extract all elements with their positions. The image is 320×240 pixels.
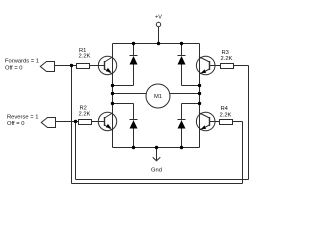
input flag Forwards xyxy=(5,59,55,72)
transistor Q4 xyxy=(196,112,215,131)
diode D3 bottom-left xyxy=(113,104,138,148)
wire Q4 base to R4 xyxy=(210,121,220,123)
diode D2 top-right xyxy=(178,44,200,86)
wire Q3 base to R3 xyxy=(210,65,221,67)
junction D3 left rail xyxy=(111,102,114,105)
svg-text:2.2K: 2.2K xyxy=(220,112,232,118)
junction D4 ground rail xyxy=(180,146,183,149)
svg-text:2.2K: 2.2K xyxy=(79,111,91,117)
resistor R2 xyxy=(79,105,92,124)
transistor Q3 xyxy=(196,56,215,75)
svg-text:+V: +V xyxy=(155,15,162,21)
wire ground rail xyxy=(113,147,200,149)
wire R3 to reverse net xyxy=(234,65,249,67)
junction D4 right rail xyxy=(198,102,201,105)
wire R2 to Q2 base xyxy=(92,121,105,123)
junction D1 top rail xyxy=(132,42,135,45)
svg-text:R4: R4 xyxy=(221,106,229,112)
wire motor right xyxy=(170,93,200,95)
resistor R3 xyxy=(221,50,234,69)
junction gnd stub xyxy=(155,146,158,149)
svg-text:2.2K: 2.2K xyxy=(79,54,91,60)
junction reverse net at R2 xyxy=(74,120,77,123)
svg-text:2.2K: 2.2K xyxy=(221,56,233,62)
diode D1 top-left xyxy=(113,44,138,86)
input flag Reverse xyxy=(7,114,56,127)
resistor R4 xyxy=(220,106,233,124)
transistor Q1 xyxy=(98,56,116,74)
wire R4 to forwards net xyxy=(233,121,243,123)
junction forwards net at R1 xyxy=(70,64,73,67)
wire R1 to Q1 base xyxy=(90,65,105,67)
svg-text:Reverse = 1: Reverse = 1 xyxy=(7,114,38,120)
junction motor right rail xyxy=(198,92,201,95)
wire forwards net bottom xyxy=(72,183,243,185)
wire reverse net vertical left xyxy=(75,122,77,180)
junction motor left rail xyxy=(111,92,114,95)
svg-text:R3: R3 xyxy=(222,50,229,56)
node +V xyxy=(155,15,162,44)
ground xyxy=(151,148,162,174)
transistor Q2 xyxy=(98,112,116,130)
junction D1 left rail xyxy=(111,84,114,87)
wire top rail xyxy=(113,43,200,45)
junction D2 right rail xyxy=(198,84,201,87)
junction D2 top rail xyxy=(180,42,183,45)
wire left rail xyxy=(112,44,114,148)
wire motor left xyxy=(113,93,147,95)
wire forwards net vertical right xyxy=(242,122,244,184)
wire right rail xyxy=(199,44,201,148)
svg-text:M1: M1 xyxy=(154,94,162,100)
wire reverse net vertical right xyxy=(248,66,250,180)
svg-text:Forwards = 1: Forwards = 1 xyxy=(5,59,39,65)
svg-text:Off = 0: Off = 0 xyxy=(5,65,22,71)
wire Reverse flag to R2 xyxy=(56,121,79,123)
wire reverse net bottom xyxy=(76,179,249,181)
resistor R1 xyxy=(77,48,91,69)
junction D3 ground rail xyxy=(132,146,135,149)
motor M1 xyxy=(146,84,170,108)
diode D4 bottom-right xyxy=(178,104,200,148)
wire forwards net vertical left xyxy=(71,66,73,184)
svg-text:Off = 0: Off = 0 xyxy=(7,121,24,127)
junction +V on top rail xyxy=(157,42,160,45)
wire Forwards flag to R1 xyxy=(55,65,77,67)
svg-text:Gnd: Gnd xyxy=(151,168,162,174)
